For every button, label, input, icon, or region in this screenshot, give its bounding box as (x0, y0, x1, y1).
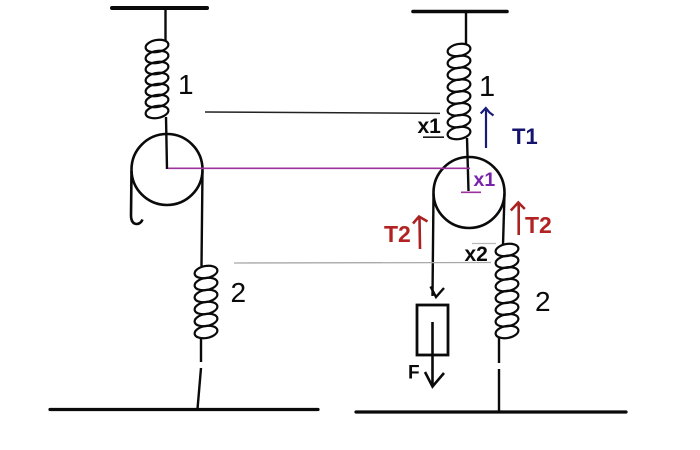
wire: left rope with hook (131, 171, 143, 224)
svg-text:2: 2 (535, 286, 551, 317)
wire: right rope of right pulley (503, 194, 505, 245)
svg-text:T1: T1 (512, 124, 538, 149)
wire: right rope of left pulley (202, 171, 203, 266)
ceiling left (112, 6, 207, 10)
svg-text:F: F (408, 363, 420, 384)
gray reference line x2 (234, 262, 491, 265)
spring 2 (left system) (194, 264, 219, 280)
magenta reference line from left pulley center (168, 167, 470, 169)
arrowhead F down (425, 372, 444, 387)
arrowhead down on rope above block (431, 287, 445, 298)
svg-text:T2: T2 (384, 221, 411, 247)
wire: right spring2 to floor (498, 338, 500, 411)
block (mass rectangle) (417, 305, 448, 355)
force line F through block (431, 322, 434, 386)
svg-text:2: 2 (231, 277, 247, 308)
floor right (356, 410, 626, 413)
wire: left ceiling stem (164, 8, 166, 41)
wire: left spring to pulley center (166, 117, 167, 169)
wire: right ceiling stem (465, 12, 467, 45)
floor left (50, 408, 318, 411)
underline of x1 (423, 136, 444, 138)
ceiling right (413, 10, 507, 14)
spring 1 (right system, stretched) (447, 42, 472, 58)
arrow T1 (blue, up) (481, 108, 494, 148)
svg-text:x1: x1 (418, 115, 442, 138)
wire: right spring1 to pulley center (467, 138, 469, 191)
svg-text:T2: T2 (525, 212, 552, 238)
svg-text:1: 1 (479, 71, 495, 103)
arrow T2 left (red, up) (413, 217, 428, 250)
svg-text:x1: x1 (474, 169, 496, 191)
spring 1 (left system) (145, 38, 170, 54)
arrow T2 right (red, up) (511, 203, 525, 236)
wire: left spring2 to floor (198, 338, 202, 409)
spring 2 (right system) (495, 242, 520, 258)
wire: left rope of right pulley down to block (433, 194, 434, 296)
svg-text:1: 1 (178, 69, 194, 100)
reference line x1 (thin black) (205, 112, 440, 113)
svg-text:x2: x2 (465, 243, 488, 266)
pulley (right system) (434, 157, 505, 228)
magenta tick at right pulley center (461, 191, 481, 193)
gray tick above x2 (472, 243, 496, 245)
pulley (left system) (132, 134, 203, 205)
